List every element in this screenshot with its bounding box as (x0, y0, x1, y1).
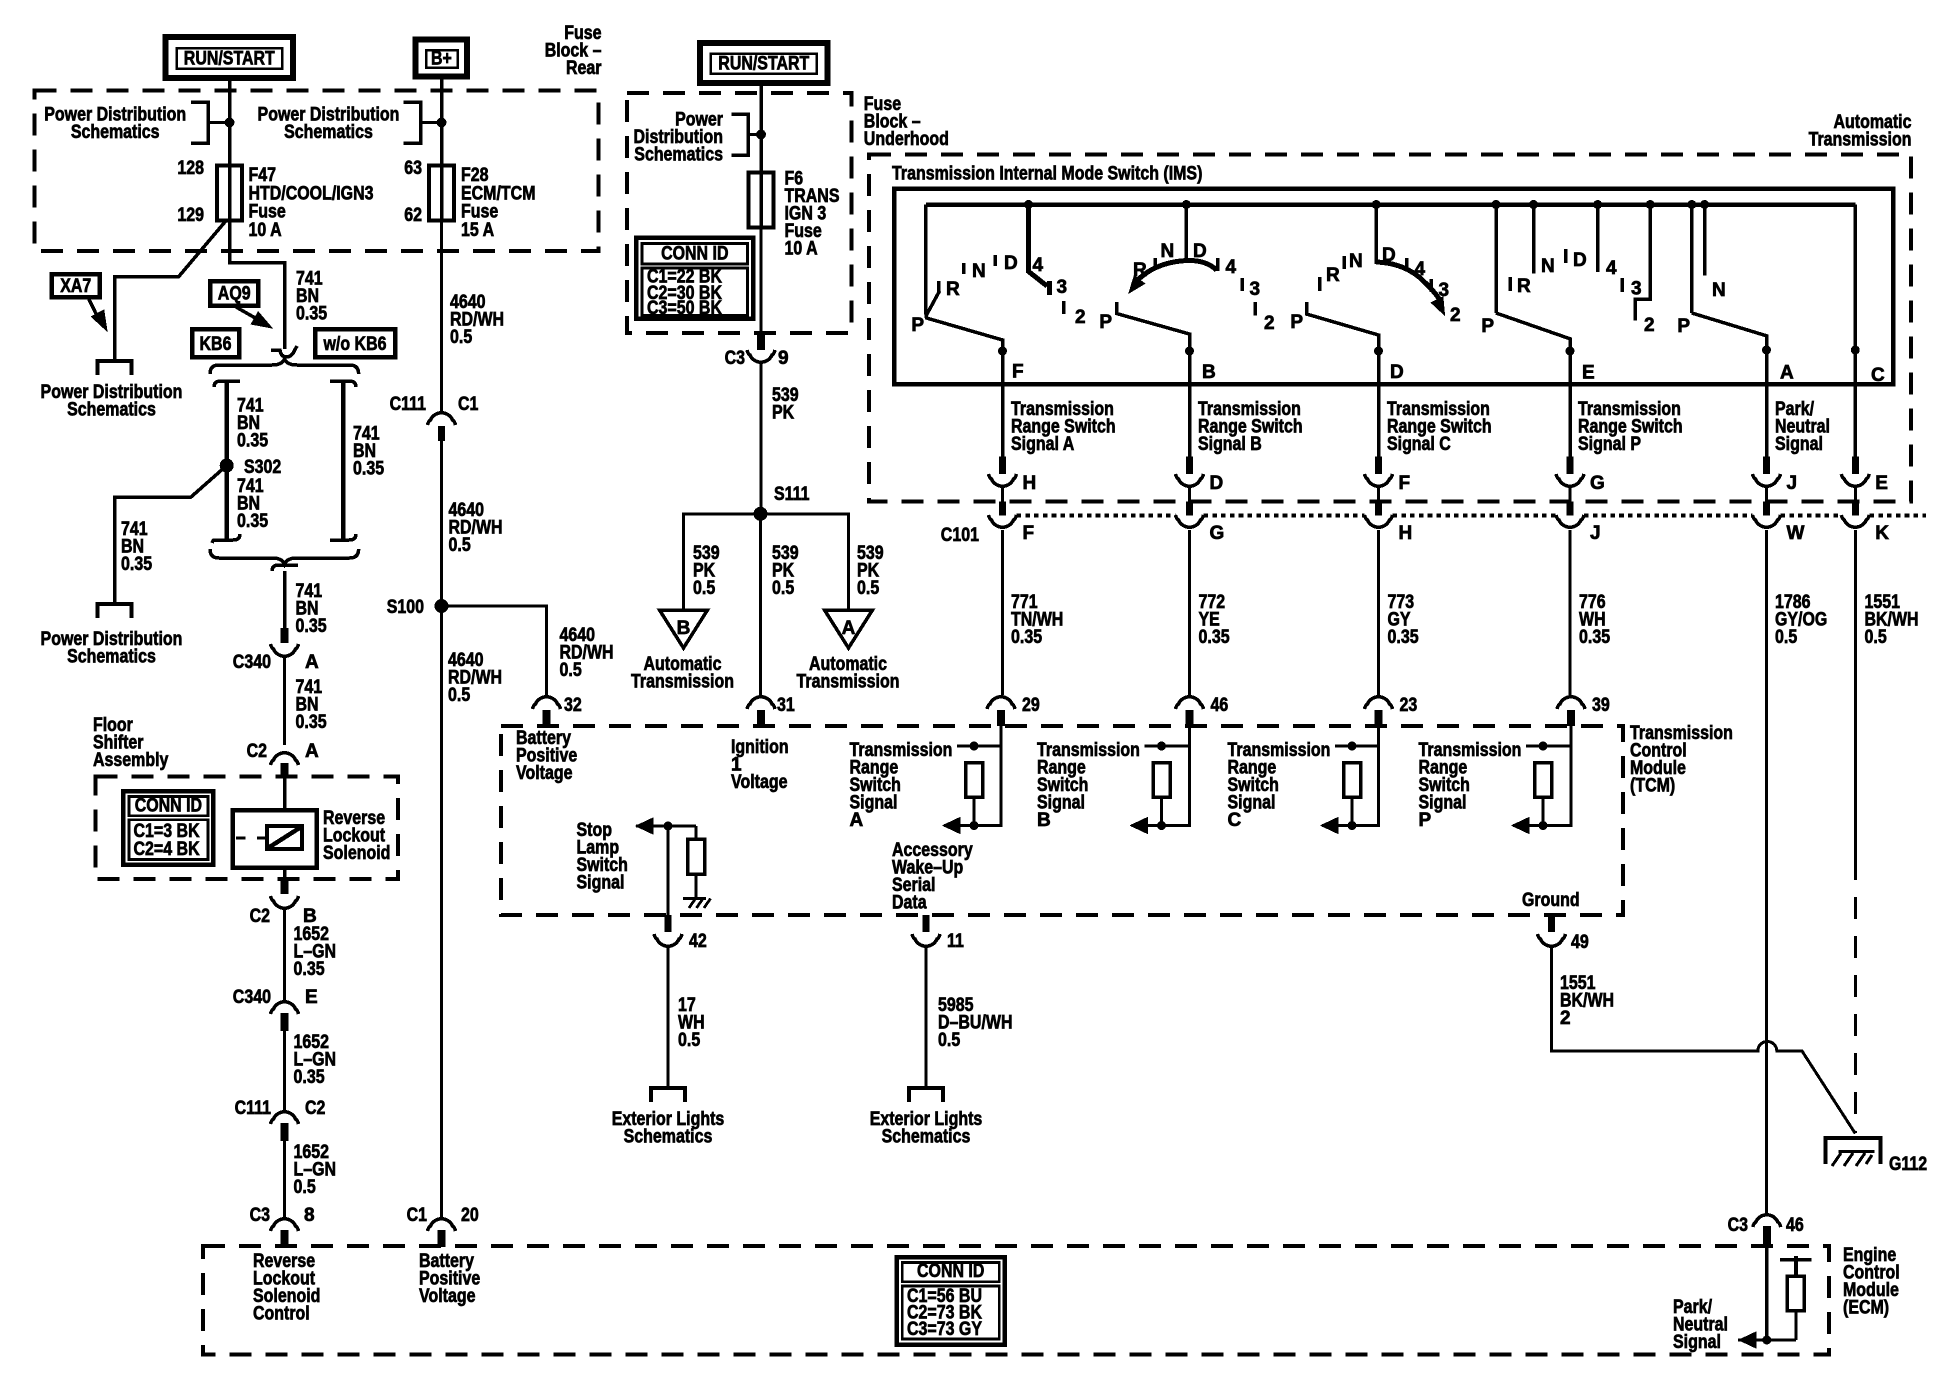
svg-text:20: 20 (461, 1205, 479, 1226)
wire KB6 branch right (341, 380, 346, 540)
svg-text:C340: C340 (233, 652, 271, 673)
svg-text:Schematics: Schematics (67, 400, 156, 421)
power feed box B+ (416, 40, 468, 77)
power feed box RUN/START (underhood) (700, 43, 828, 83)
svg-text:N: N (972, 261, 986, 282)
connector XA7 box (52, 274, 100, 297)
in-line connector C101 dotted line (1017, 513, 1176, 517)
dashed box Fuse Block - Rear (35, 90, 599, 251)
IMS switch 4 feed at 4 (1593, 200, 1602, 209)
pull-up resistor TCM signal A (957, 745, 1001, 748)
off-page bracket exterior lights (11) (909, 1088, 943, 1102)
connector C101 pin F (1001, 487, 1004, 502)
IMS switch 4 feed at N (1529, 200, 1538, 209)
CONN ID table (underhood) (636, 238, 753, 319)
svg-text:C2: C2 (247, 741, 267, 762)
fuse F47 HTD/COOL/IGN3 10 A (217, 166, 242, 221)
connector IMS pin G (1567, 457, 1574, 474)
wire B+ to fuse F28 (440, 77, 444, 166)
svg-text:G112: G112 (1889, 1154, 1927, 1175)
connector IMS pin D (1186, 457, 1193, 474)
svg-text:D: D (1210, 473, 1224, 494)
svg-text:J: J (1590, 523, 1601, 544)
IMS switch 1 feed at 4 to 3 (closed contacts) (1024, 200, 1033, 209)
svg-text:E: E (305, 987, 318, 1008)
IMS switch 4 feed to 2 (L jog) (1646, 200, 1655, 209)
connector IMS pin H (999, 457, 1006, 474)
svg-text:0.5: 0.5 (448, 685, 471, 706)
connector hook at wire end above brace (271, 346, 297, 357)
IMS switch 4 output node E (1566, 347, 1575, 356)
svg-text:0.5: 0.5 (560, 660, 583, 681)
IMS switch 5 output node A (1762, 346, 1771, 355)
svg-text:(TCM): (TCM) (1630, 776, 1675, 797)
svg-text:H: H (1023, 473, 1037, 494)
svg-text:0.35: 0.35 (237, 511, 268, 532)
connector IMS pin E (1852, 457, 1859, 474)
svg-text:15 A: 15 A (461, 220, 494, 241)
svg-text:0.35: 0.35 (1011, 627, 1042, 648)
connector C340 pin A (281, 628, 289, 643)
wire S302 to lower Power Distribution Schematics (115, 466, 227, 605)
wire TCM pin 23 to signal arrow (1322, 726, 1379, 826)
node on RUN/START feed (225, 118, 235, 128)
svg-text:A: A (305, 652, 319, 673)
svg-text:Rear: Rear (566, 58, 602, 79)
svg-text:Signal: Signal (1673, 1332, 1721, 1353)
svg-text:0.5: 0.5 (1775, 627, 1798, 648)
wire C111 to S100 (440, 441, 443, 606)
splice S100 (435, 599, 449, 613)
svg-text:F: F (1023, 523, 1035, 544)
arrow XA7 to wire (89, 299, 101, 324)
IMS switch 2 feed drop (1182, 200, 1191, 209)
svg-text:F: F (1399, 473, 1411, 494)
IMS switch 1 contact tick 2 (1062, 301, 1066, 314)
reverse lockout solenoid box (233, 810, 317, 868)
svg-text:3: 3 (1439, 280, 1450, 301)
IMS switch 5 wiper P to output A (1692, 313, 1767, 350)
ground G112 (1826, 1138, 1881, 1164)
svg-text:(ECM): (ECM) (1843, 1298, 1889, 1319)
off-page bracket (underhood) (731, 114, 748, 155)
wire 1551 from K to G112 (solid then dashed) (1854, 530, 1857, 858)
svg-text:0.5: 0.5 (1865, 627, 1888, 648)
connector C3 pin 9 (757, 333, 765, 350)
wire S111 branch to triangle A (761, 514, 849, 610)
wire C2 into reverse lockout solenoid (283, 777, 287, 811)
connector C2 pin B (281, 879, 289, 894)
connector C101 pin W (1765, 487, 1768, 502)
connector C2 pin A (floor shifter) (271, 753, 299, 765)
svg-text:B+: B+ (431, 49, 452, 70)
svg-text:C1: C1 (458, 394, 479, 415)
svg-text:A: A (842, 618, 856, 639)
svg-text:23: 23 (1400, 695, 1418, 716)
wire S111 branch to triangle B (684, 514, 761, 610)
svg-text:R: R (946, 279, 960, 300)
svg-text:C3=73 GY: C3=73 GY (907, 1319, 982, 1340)
svg-text:49: 49 (1571, 932, 1589, 953)
svg-text:C: C (1871, 365, 1885, 386)
svg-text:Signal: Signal (1775, 434, 1823, 455)
wire solenoid to C2 pin B (283, 868, 287, 880)
svg-text:D: D (1573, 250, 1587, 271)
wire TCM pin 29 to signal arrow (944, 726, 1001, 826)
connector TCM pin 31 (747, 697, 775, 709)
svg-text:S111: S111 (774, 484, 810, 505)
svg-text:H: H (1399, 523, 1413, 544)
connector TCM pin 23 (1365, 697, 1393, 709)
svg-text:4: 4 (1606, 258, 1617, 279)
svg-text:Voltage: Voltage (731, 772, 788, 793)
svg-text:29: 29 (1022, 695, 1040, 716)
option box KB6 (192, 329, 239, 357)
svg-text:2: 2 (1264, 313, 1275, 334)
svg-text:0.5: 0.5 (450, 327, 473, 348)
svg-text:B: B (1202, 362, 1216, 383)
svg-text:Transmission: Transmission (1809, 130, 1912, 151)
wire pin 42 to exterior lights (667, 946, 670, 1088)
svg-text:G: G (1590, 473, 1605, 494)
off-page bracket exterior lights (42) (651, 1088, 685, 1102)
svg-text:RUN/START: RUN/START (718, 54, 809, 75)
connector IMS pin J (1763, 457, 1770, 474)
connector TCM pin 39 (1557, 697, 1585, 709)
wire label 539 PK (760, 363, 763, 514)
svg-text:32: 32 (564, 695, 582, 716)
svg-text:Signal B: Signal B (1198, 434, 1262, 455)
svg-text:D: D (1382, 245, 1396, 266)
IMS switch 3 contact ticks (1318, 277, 1322, 291)
svg-text:N: N (1161, 241, 1175, 262)
dashed box Floor Shifter Assembly (95, 777, 398, 880)
svg-text:Schematics: Schematics (882, 1127, 971, 1148)
brace top (KB6 split) (210, 359, 359, 374)
connector TCM pin 29 (987, 697, 1015, 709)
wire KB6 branch left (224, 380, 229, 540)
wire TCM pin 39 to signal arrow (1513, 726, 1571, 826)
wire bracket to RUN/START feed (208, 121, 230, 124)
IMS switch 3 closed contact arc D to 2 (1376, 262, 1441, 303)
off-page bracket (XA7 branch) to Power Distribution Schematics (98, 361, 132, 375)
svg-text:RUN/START: RUN/START (184, 49, 275, 70)
connector C101 pin H (1377, 487, 1380, 502)
svg-text:R: R (1326, 265, 1340, 286)
triangle A Automatic Transmission (825, 610, 873, 648)
svg-text:0.35: 0.35 (294, 959, 325, 980)
svg-text:0.35: 0.35 (294, 1067, 325, 1088)
wire C3 46 into ECM (1765, 1247, 1769, 1340)
IMS switch 2 wiper P to output B (1117, 302, 1190, 351)
svg-text:A: A (850, 810, 864, 831)
svg-text:D: D (1193, 241, 1207, 262)
svg-text:Underhood: Underhood (864, 129, 949, 150)
svg-text:Transmission: Transmission (797, 672, 900, 693)
svg-text:0.35: 0.35 (1199, 627, 1230, 648)
svg-text:C: C (1228, 810, 1242, 831)
svg-text:10 A: 10 A (785, 239, 818, 260)
park/neutral signal line with arrow (1738, 1339, 1796, 1342)
svg-text:N: N (1541, 256, 1555, 277)
IMS switch 2 output node B (1185, 347, 1194, 356)
svg-text:Signal C: Signal C (1387, 434, 1451, 455)
pull-up resistor TCM signal P (1526, 745, 1571, 748)
svg-text:KB6: KB6 (200, 334, 232, 355)
svg-text:2: 2 (1450, 305, 1461, 326)
IMS switch 1 contact ticks R N D (937, 281, 941, 293)
svg-text:P: P (1677, 316, 1690, 337)
stop lamp pull-up resistor to ground (695, 826, 698, 839)
connector C111 pin C1 (428, 413, 456, 425)
power feed box RUN/START (fuse block rear) (166, 37, 294, 78)
wire RUN/START to fuse F6 (759, 83, 763, 173)
svg-text:0.5: 0.5 (294, 1177, 317, 1198)
svg-text:Ground: Ground (1522, 890, 1580, 911)
wire S111 to TCM pin 31 (759, 514, 762, 695)
svg-text:Schematics: Schematics (284, 122, 373, 143)
IMS switch 2 contact ticks (1153, 258, 1157, 270)
IMS internal ground bus (926, 202, 1856, 207)
svg-text:D: D (1004, 253, 1018, 274)
svg-text:Schematics: Schematics (634, 145, 723, 166)
svg-text:4: 4 (1415, 259, 1426, 280)
svg-text:R: R (1133, 260, 1147, 281)
svg-text:XA7: XA7 (60, 276, 91, 297)
svg-text:46: 46 (1786, 1215, 1804, 1236)
svg-text:0.35: 0.35 (237, 431, 268, 452)
svg-text:C2: C2 (250, 906, 270, 927)
svg-text:0.35: 0.35 (296, 712, 327, 733)
svg-text:0.35: 0.35 (296, 304, 327, 325)
svg-text:B: B (1037, 810, 1051, 831)
svg-text:B: B (677, 618, 691, 639)
svg-text:K: K (1875, 523, 1889, 544)
wire below brace with serif (272, 565, 298, 571)
svg-text:62: 62 (404, 205, 422, 226)
connector C3 pin 8 (ECM) (271, 1219, 299, 1231)
arrow AQ9 to wire (236, 307, 264, 323)
svg-text:C3: C3 (250, 1205, 270, 1226)
connector TCM pin 32 (533, 697, 561, 709)
wire TCM pin 46 to signal arrow (1132, 726, 1190, 826)
splice S302 (220, 459, 234, 473)
svg-text:Solenoid: Solenoid (323, 843, 390, 864)
svg-text:4: 4 (1226, 257, 1237, 278)
svg-text:9: 9 (778, 348, 789, 369)
svg-text:2: 2 (1644, 315, 1655, 336)
connector TCM pin 49 (1548, 915, 1555, 932)
svg-text:128: 128 (177, 158, 204, 179)
svg-text:CONN ID: CONN ID (661, 244, 728, 265)
svg-text:0.35: 0.35 (1579, 627, 1610, 648)
svg-text:2: 2 (1560, 1008, 1571, 1029)
option box AQ9 (210, 281, 258, 306)
svg-text:0.35: 0.35 (353, 459, 384, 480)
off-page bracket lower left (98, 604, 132, 618)
wire F47 to junction jog (230, 221, 285, 349)
wire stop lamp node to pin 42 (667, 826, 670, 915)
ECM park/neutral pull-up resistor (1780, 1258, 1812, 1262)
svg-text:11: 11 (947, 931, 964, 952)
connector TCM pin 11 (923, 915, 930, 932)
svg-text:Transmission: Transmission (631, 672, 734, 693)
svg-text:C2: C2 (305, 1098, 325, 1119)
wire RUN/START to fuse F47 (228, 78, 232, 166)
connector C1 pin 20 (ECM) (428, 1219, 456, 1231)
IMS switch 3 feed drop (1372, 200, 1381, 209)
IMS solid box (894, 189, 1893, 384)
IMS switch 4 wiper P to output E (1496, 313, 1570, 351)
solenoid element (267, 826, 302, 849)
IMS switch 3 wiper P to output D (1307, 302, 1379, 351)
svg-text:P: P (1419, 810, 1432, 831)
wire diagonal F47 to XA7 branch (115, 220, 227, 362)
svg-text:0.5: 0.5 (678, 1030, 701, 1051)
svg-text:C3: C3 (1728, 1215, 1748, 1236)
connector C101 pin G (1188, 487, 1191, 502)
dashed box Automatic Transmission (869, 155, 1911, 502)
dashed box Transmission Control Module (TCM) (501, 726, 1623, 915)
svg-text:0.35: 0.35 (1388, 627, 1419, 648)
svg-text:39: 39 (1592, 695, 1610, 716)
svg-text:0.5: 0.5 (449, 535, 472, 556)
IMS switch 4 contact ticks (1509, 277, 1513, 291)
svg-text:0.5: 0.5 (857, 578, 880, 599)
wire label 1652 L-GN 0.5 (283, 1141, 286, 1217)
wire S100 down to C1 pin 20 (440, 606, 443, 1217)
svg-text:Signal: Signal (577, 873, 625, 894)
svg-text:C340: C340 (233, 987, 271, 1008)
connector C340 pin E (271, 1002, 299, 1014)
wire bracket to B+ feed (421, 121, 442, 124)
pull-up resistor TCM signal C (1335, 745, 1379, 748)
svg-text:0.35: 0.35 (121, 554, 152, 575)
wire F6 to connector C3 pin 9 (760, 228, 763, 333)
svg-text:Control: Control (253, 1304, 310, 1325)
ground symbol (TCM internal) (683, 897, 706, 900)
fuse F28 ECM/TCM 15 A (429, 166, 454, 221)
svg-text:0.5: 0.5 (693, 578, 716, 599)
IMS switch 1 wiper P to output F (926, 313, 1003, 354)
svg-text:C2=4 BK: C2=4 BK (134, 839, 200, 860)
svg-text:2: 2 (1075, 307, 1086, 328)
wire F28 to C111 (440, 221, 443, 411)
svg-text:129: 129 (177, 205, 204, 226)
svg-text:N: N (1349, 251, 1363, 272)
svg-text:0.35: 0.35 (296, 616, 327, 637)
off-page bracket to Power Distribution Schematics (left) (191, 102, 208, 143)
connector C3 pin 46 (ECM) (1753, 1215, 1781, 1227)
svg-text:31: 31 (777, 695, 795, 716)
svg-text:0.5: 0.5 (938, 1030, 961, 1051)
svg-text:E: E (1582, 363, 1595, 384)
svg-text:Schematics: Schematics (67, 647, 156, 668)
svg-text:3: 3 (1250, 279, 1261, 300)
svg-text:w/o KB6: w/o KB6 (323, 334, 387, 355)
svg-text:Transmission Internal Mode Swi: Transmission Internal Mode Switch (IMS) (892, 164, 1202, 185)
svg-text:Assembly: Assembly (93, 750, 169, 771)
svg-text:Voltage: Voltage (419, 1286, 476, 1307)
svg-text:0.5: 0.5 (772, 578, 795, 599)
svg-text:8: 8 (304, 1205, 315, 1226)
svg-text:P: P (1481, 316, 1494, 337)
svg-text:AQ9: AQ9 (218, 284, 251, 305)
dashed box Engine Control Module (ECM) (203, 1246, 1829, 1355)
connector C101 pin J (1569, 487, 1572, 502)
svg-text:N: N (1712, 280, 1726, 301)
svg-text:46: 46 (1211, 695, 1229, 716)
svg-text:C111: C111 (235, 1098, 272, 1119)
brace bottom (KB6 merge) (210, 549, 359, 564)
svg-text:Voltage: Voltage (516, 763, 573, 784)
svg-text:R: R (1517, 276, 1531, 297)
svg-text:C111: C111 (390, 394, 427, 415)
svg-text:C3: C3 (725, 348, 745, 369)
svg-text:Schematics: Schematics (71, 122, 160, 143)
svg-text:Signal A: Signal A (1011, 434, 1075, 455)
svg-text:D: D (1390, 362, 1404, 383)
svg-text:Data: Data (892, 893, 927, 914)
svg-text:S100: S100 (387, 597, 424, 618)
IMS switch 1 wiper arm to R (927, 291, 940, 315)
svg-text:CONN ID: CONN ID (917, 1261, 984, 1282)
svg-text:S302: S302 (244, 457, 281, 478)
svg-text:F: F (1012, 362, 1024, 383)
svg-text:P: P (911, 315, 924, 336)
svg-text:C101: C101 (941, 525, 980, 546)
wire pin 11 to exterior lights (925, 946, 928, 1088)
svg-text:W: W (1787, 523, 1805, 544)
IMS switch 5 feed at N (1700, 200, 1709, 209)
svg-text:A: A (305, 741, 319, 762)
node on B+ feed (437, 118, 447, 128)
svg-text:J: J (1787, 473, 1798, 494)
CONN ID table (floor shifter) (123, 791, 213, 865)
wire label 1652 L-GN 0.35 (upper) (283, 908, 286, 1000)
connector IMS pin F (1375, 457, 1382, 474)
pull-up resistor TCM signal B (1145, 745, 1190, 748)
svg-text:E: E (1875, 473, 1888, 494)
solenoid dashes (236, 836, 246, 839)
connector TCM pin 42 (665, 915, 672, 932)
svg-text:C1: C1 (407, 1205, 428, 1226)
svg-text:PK: PK (772, 403, 794, 424)
svg-text:4: 4 (1033, 255, 1044, 276)
connector C101 pin K (1854, 487, 1857, 502)
IMS switch 3 output node D (1374, 347, 1383, 356)
svg-text:42: 42 (689, 931, 707, 952)
wire label 1652 L-GN 0.35 (lower) (283, 1031, 286, 1110)
IMS switch 5 bus drop to P (1687, 200, 1696, 209)
svg-text:10 A: 10 A (249, 220, 282, 241)
connector C111 pin C2 (271, 1112, 299, 1124)
svg-text:C3=50 BK: C3=50 BK (647, 298, 722, 319)
svg-text:P: P (1099, 312, 1112, 333)
IMS switch 1 output node F (998, 347, 1007, 356)
svg-text:G: G (1210, 523, 1225, 544)
IMS switch 4 bus drop to P (1492, 200, 1501, 209)
triangle B Automatic Transmission (660, 610, 708, 648)
off-page bracket to Power Distribution Schematics (B+) (404, 102, 421, 143)
svg-text:CONN ID: CONN ID (135, 796, 202, 817)
dashed box Fuse Block - Underhood (627, 93, 852, 333)
fuse F6 TRANS IGN 3 10 A (749, 172, 774, 227)
option box w/o KB6 (315, 329, 395, 357)
wire pin 49 to G112 with hop over 1786 wire (1552, 946, 1856, 1134)
stop lamp signal arrow and node (636, 818, 653, 834)
wire S100 branch to TCM pin 32 (442, 606, 547, 695)
